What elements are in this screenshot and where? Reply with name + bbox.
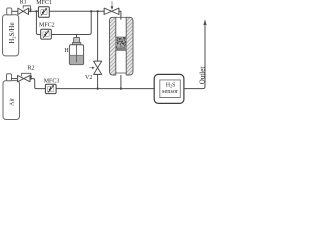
- reactor furnace left wall: [110, 17, 116, 75]
- node after R1: [30, 10, 32, 12]
- reactor bottom rim: [116, 72, 126, 74]
- svg-text:MFC3: MFC3: [44, 79, 60, 85]
- svg-text:V2: V2: [85, 75, 92, 81]
- reactor top rim: [116, 16, 126, 18]
- humidifier bottle: [69, 45, 83, 65]
- MFC2: [41, 29, 52, 39]
- wire Air to R2: [11, 78, 18, 80]
- svg-text:R2: R2: [28, 66, 35, 72]
- wire R1 to MFC1: [29, 10, 39, 12]
- svg-text:sensor: sensor: [162, 88, 179, 95]
- humidifier dip tube: [76, 44, 78, 62]
- cylinder Air neck: [7, 74, 12, 81]
- valve V1 top: [104, 8, 119, 14]
- sensor outer box: [154, 74, 184, 103]
- wire stub to humidifier: [76, 35, 78, 38]
- R2 arrow onto line: [30, 76, 32, 79]
- V2 arrow: [89, 67, 94, 69]
- svg-text:MFC2: MFC2: [39, 23, 55, 29]
- node bypass join: [97, 10, 99, 12]
- wire sensor to outlet riser: [184, 24, 205, 88]
- reactor furnace right wall: [126, 17, 133, 75]
- svg-text:H2S/He: H2S/He: [8, 22, 16, 43]
- humidifier collar: [72, 43, 80, 45]
- sensor inner box: [160, 80, 181, 98]
- svg-text:H: H: [64, 48, 69, 54]
- humidifier water: [70, 55, 83, 64]
- cylinder Air body: [3, 81, 20, 120]
- wire V2 to bottom line: [97, 74, 99, 88]
- wire MFC1 to valve: [49, 10, 104, 12]
- svg-text:Outlet: Outlet: [199, 67, 207, 85]
- svg-text:R1: R1: [20, 0, 27, 5]
- wire bypass down: [97, 11, 99, 61]
- node V2-bottom: [97, 88, 99, 90]
- wire valve to reactor inlet: [119, 11, 121, 19]
- valve V2: [94, 61, 102, 74]
- cylinder H2S/He body: [3, 15, 19, 56]
- node tee to MFC2: [35, 10, 37, 12]
- bottom wire MFC3 to sensor: [56, 88, 154, 90]
- regulator R2: [18, 73, 31, 82]
- outlet arrowhead: [203, 19, 206, 25]
- MFC3: [45, 84, 56, 93]
- wire cylinder to R1: [12, 10, 18, 12]
- node after R2: [30, 78, 32, 80]
- node reactor-bottom: [120, 88, 122, 90]
- wire tee down to MFC2: [36, 11, 40, 34]
- svg-text:Air: Air: [9, 98, 15, 106]
- wire MFC2 to humid join: [51, 11, 91, 34]
- humidifier H cap: [74, 37, 80, 42]
- node humid line join: [90, 10, 92, 12]
- catalyst bed: [116, 36, 126, 50]
- wire reactor outlet: [120, 75, 122, 89]
- V1 stem arrow: [111, 1, 113, 9]
- MFC1: [38, 7, 49, 18]
- cylinder H2S/He neck: [7, 8, 12, 15]
- svg-text:MFC1: MFC1: [36, 0, 52, 6]
- regulator R1: [18, 6, 31, 15]
- wire R2 to MFC3: [30, 79, 45, 89]
- R1 arrow onto line: [30, 8, 32, 11]
